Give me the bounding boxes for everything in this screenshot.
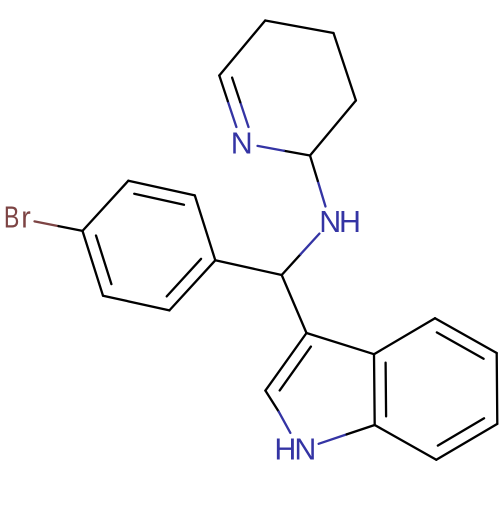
bond benzene C-C bottom xyxy=(103,296,169,311)
bond Br-C aryl xyxy=(35,221,59,226)
svg-text:N: N xyxy=(294,433,316,467)
bond ring CH2-C xyxy=(310,101,356,156)
bond C-N ring xyxy=(284,151,310,156)
bond benzo bottom xyxy=(375,425,437,460)
bond ring CH2 top xyxy=(265,21,333,34)
bond benzo right xyxy=(496,353,499,424)
svg-text:N: N xyxy=(231,126,253,160)
svg-text:N: N xyxy=(319,205,341,239)
double bond inner line C=N xyxy=(240,102,248,127)
double bond inner line benzene bottom-right xyxy=(167,259,201,297)
bond indole C3a-C3 xyxy=(307,333,375,354)
double bond inner line indole C2=C3 xyxy=(280,347,311,391)
bond benzene C-C top xyxy=(128,181,194,196)
bond aryl-CH xyxy=(215,260,281,275)
bond ring CH2 xyxy=(219,21,265,76)
svg-text:B: B xyxy=(4,200,20,234)
bond indole C2-NH xyxy=(265,391,278,412)
double bond inner line benzene top xyxy=(134,194,184,205)
svg-text:H: H xyxy=(339,205,361,239)
bond benzene C-C xyxy=(195,195,216,260)
bond ring CH2 right xyxy=(334,33,356,101)
double bond inner line fusion xyxy=(384,363,387,417)
bond indole C3=C2 xyxy=(265,333,306,391)
bond N=C imine xyxy=(228,101,237,127)
double bond inner line benzo bottom xyxy=(438,418,484,445)
bond benzo top-right xyxy=(435,318,497,353)
double bond inner line benzo xyxy=(437,332,484,358)
bond indole fusion C3a-C7a xyxy=(373,354,376,425)
double bond inner line benzene left xyxy=(96,236,111,285)
bond benzene C-C xyxy=(169,260,215,310)
svg-text:r: r xyxy=(21,200,31,234)
bond benzo bottom-right xyxy=(436,424,497,460)
bond CH-indole C3 xyxy=(282,275,307,333)
bond benzo xyxy=(374,318,435,354)
bond NH-C aminal xyxy=(318,181,326,207)
bond benzene C-C left xyxy=(83,231,104,296)
bond indole NH-C7a xyxy=(319,434,347,443)
svg-text:H: H xyxy=(274,433,296,467)
bond benzene C-C xyxy=(83,181,129,231)
bond CH-NH xyxy=(282,254,301,275)
